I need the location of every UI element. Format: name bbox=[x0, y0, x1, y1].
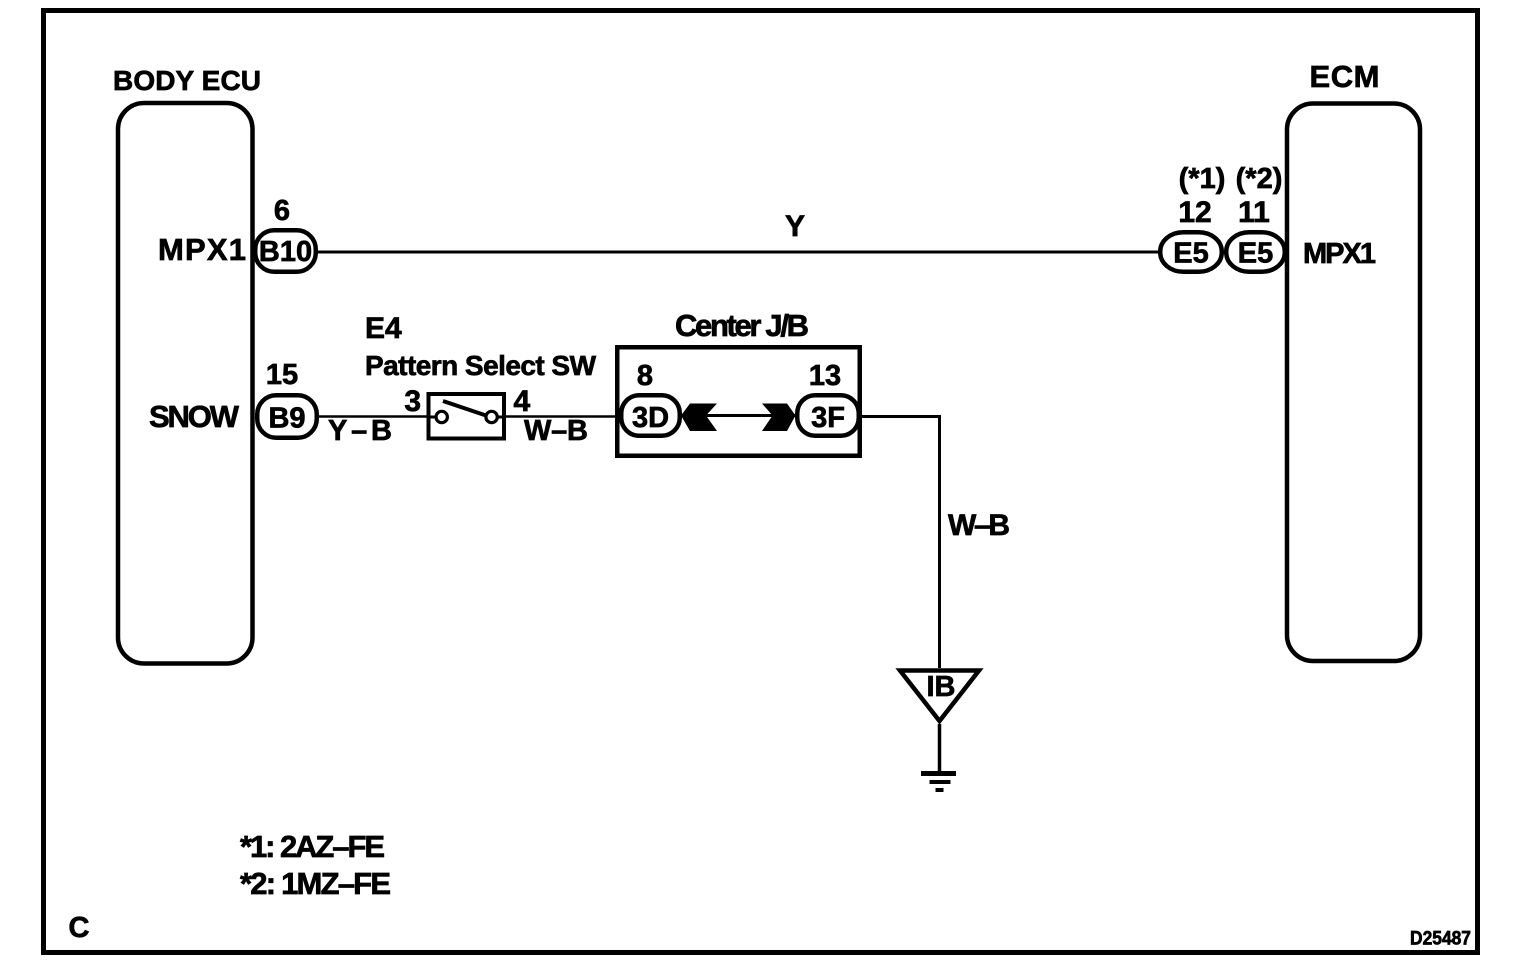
note *1: 2AZ-FE bbox=[240, 829, 385, 864]
svg-text:Center J/B: Center J/B bbox=[675, 308, 809, 343]
wire (3D to 3F inside J/B) bbox=[682, 414, 795, 417]
svg-text:D25487: D25487 bbox=[1410, 929, 1471, 950]
arrow pointing left at 3D bbox=[681, 404, 717, 432]
svg-text:C: C bbox=[69, 912, 90, 944]
svg-text:4: 4 bbox=[514, 385, 531, 418]
ground symbol bbox=[921, 724, 956, 790]
svg-text:Y: Y bbox=[785, 210, 805, 243]
ground connector IB bbox=[900, 671, 979, 722]
label ECM bbox=[1310, 59, 1380, 94]
svg-text:W–B: W–B bbox=[948, 509, 1010, 542]
connector B10 pin 6 bbox=[255, 195, 316, 272]
svg-text:(*2): (*2) bbox=[1236, 163, 1283, 195]
svg-text:B9: B9 bbox=[268, 403, 305, 435]
svg-text:*2: 1MZ–FE: *2: 1MZ–FE bbox=[240, 866, 391, 901]
pin name MPX1 (ECM side) bbox=[1303, 238, 1376, 270]
connector 3F pin 13 bbox=[797, 360, 859, 436]
svg-text:3F: 3F bbox=[811, 402, 845, 434]
svg-text:6: 6 bbox=[274, 195, 290, 227]
svg-text:12: 12 bbox=[1178, 196, 1211, 229]
svg-text:Y–B: Y–B bbox=[328, 415, 392, 447]
svg-text:3: 3 bbox=[404, 385, 421, 418]
svg-text:E5: E5 bbox=[1173, 238, 1208, 270]
svg-text:W–B: W–B bbox=[524, 415, 588, 447]
label C (section marker) bbox=[69, 912, 90, 944]
connector 3D pin 8 bbox=[621, 360, 680, 436]
svg-text:8: 8 bbox=[637, 360, 653, 392]
svg-text:IB: IB bbox=[927, 671, 956, 703]
arrow pointing right at 3F bbox=[762, 404, 796, 432]
svg-text:13: 13 bbox=[809, 360, 841, 392]
junction block Center J/B bbox=[617, 308, 860, 456]
wire W-B (3F to ground) bbox=[861, 417, 1010, 669]
svg-text:ECM: ECM bbox=[1310, 59, 1380, 94]
note *2: 1MZ-FE bbox=[240, 866, 391, 901]
connector E5 pin 11 (*2) bbox=[1226, 163, 1285, 272]
ECU block BODY ECU bbox=[118, 103, 253, 664]
pin name SNOW bbox=[149, 399, 240, 434]
svg-text:SNOW: SNOW bbox=[149, 399, 240, 434]
ECU block ECM bbox=[1287, 104, 1420, 662]
pin name MPX1 (BODY ECU side) bbox=[158, 232, 246, 267]
svg-text:(*1): (*1) bbox=[1179, 163, 1226, 195]
connector E5 pin 12 (*1) bbox=[1160, 163, 1225, 272]
wire W-B (switch to Center J/B) bbox=[506, 415, 619, 447]
svg-text:BODY ECU: BODY ECU bbox=[113, 65, 261, 96]
switch E4 Pattern Select SW bbox=[365, 312, 597, 439]
svg-text:MPX1: MPX1 bbox=[1303, 238, 1376, 270]
label BODY ECU bbox=[113, 65, 261, 96]
connector B9 pin 15 bbox=[257, 359, 317, 438]
svg-text:*1: 2AZ–FE: *1: 2AZ–FE bbox=[240, 829, 385, 864]
svg-text:MPX1: MPX1 bbox=[158, 232, 246, 267]
svg-text:E4: E4 bbox=[365, 312, 402, 345]
svg-text:E5: E5 bbox=[1238, 238, 1273, 270]
wire Y (B10 to E5) bbox=[318, 210, 1160, 252]
svg-text:Pattern Select SW: Pattern Select SW bbox=[365, 350, 597, 381]
label D25487 (drawing number) bbox=[1410, 929, 1471, 950]
svg-text:3D: 3D bbox=[632, 402, 669, 434]
wire Y-B (B9 to switch) bbox=[319, 415, 427, 447]
svg-text:11: 11 bbox=[1238, 196, 1270, 229]
svg-text:B10: B10 bbox=[259, 236, 312, 268]
svg-text:15: 15 bbox=[266, 359, 298, 391]
